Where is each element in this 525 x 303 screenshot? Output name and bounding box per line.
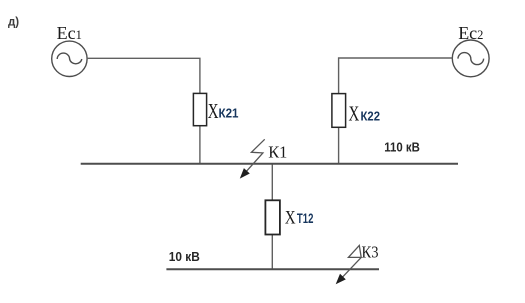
svg-text:X: X: [285, 208, 296, 229]
svg-text:К21: К21: [219, 107, 239, 121]
svg-text:Т12: Т12: [297, 211, 314, 226]
svg-text:110 кВ: 110 кВ: [384, 140, 420, 155]
svg-text:д): д): [8, 16, 19, 28]
svg-text:10 кВ: 10 кВ: [169, 249, 200, 264]
svg-text:X: X: [208, 99, 219, 123]
svg-text:К22: К22: [361, 109, 381, 123]
svg-text:К1: К1: [268, 143, 287, 162]
svg-text:X: X: [349, 102, 360, 126]
svg-text:К3: К3: [362, 243, 379, 262]
